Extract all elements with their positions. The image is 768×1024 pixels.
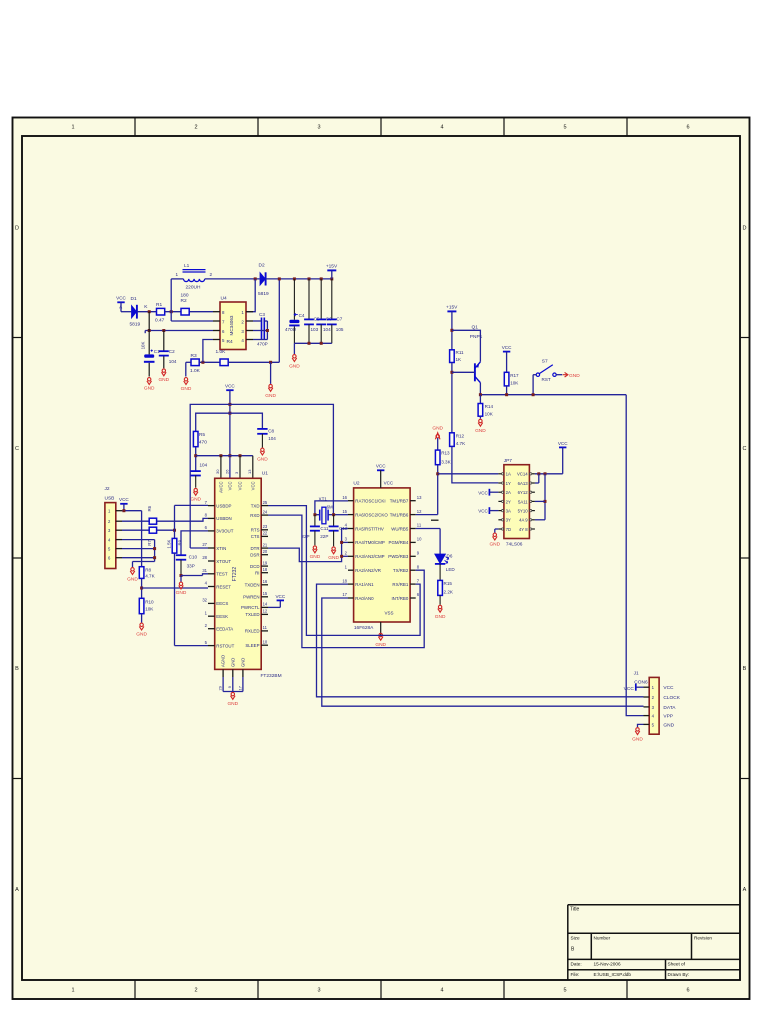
wires U4 pins 2,3,4 to C3 [253,320,262,322]
resistor R4 1.0K [220,359,228,366]
svg-text:R3: R3 [191,353,197,359]
svg-text:+15V: +15V [446,304,458,310]
svg-text:XTOUT: XTOUT [216,559,231,564]
svg-text:VCC: VCC [116,296,126,301]
svg-text:INT/RB0: INT/RB0 [391,596,408,601]
wire junction up to L1 pin1 and down to U4 pin7 [170,279,172,321]
svg-text:C7: C7 [336,316,342,321]
svg-text:GND: GND [176,590,187,596]
svg-text:22P: 22P [320,534,328,539]
svg-text:TM1/RB7: TM1/RB7 [390,499,409,504]
wire D1 to R1, node K [137,311,157,313]
wire 3V3OUT to C10 [181,531,208,555]
wire node K down to pin6 rail and C1 [148,312,150,355]
wire R7 to USBDP node [157,529,175,531]
svg-text:6Y12: 6Y12 [518,490,529,495]
IC U1 FT232BM [215,478,262,669]
svg-text:17: 17 [342,592,347,597]
capacitor 104 AVCC filter [191,471,201,475]
ground U2 VSS [378,633,383,640]
svg-text:EEDATA: EEDATA [216,627,233,632]
resistor R11 1K [450,350,455,363]
wire S7 to VPP rail [533,374,536,376]
svg-text:RA5/RST/THV: RA5/RST/THV [355,526,384,531]
svg-text:GND: GND [136,632,147,638]
ground C11 [313,546,318,553]
svg-text:103: 103 [311,327,319,332]
svg-text:VSS: VSS [384,611,393,616]
svg-text:16: 16 [263,579,268,584]
capacitor C12 22P [333,515,335,527]
svg-text:S7: S7 [542,359,548,365]
wire Q1 collector to VPP rail [479,383,481,395]
LED D6 [435,554,449,564]
svg-text:PWD/RB3: PWD/RB3 [388,554,409,559]
svg-text:Size: Size [571,936,581,941]
svg-text:C11: C11 [320,526,329,531]
svg-text:VCC: VCC [228,482,233,491]
svg-text:33P: 33P [187,563,195,568]
svg-text:10K: 10K [141,342,146,350]
wire RXD to U2 TX [268,515,424,648]
svg-text:RSTOUT: RSTOUT [216,643,234,648]
U1 right pins [261,506,268,646]
wire crystal to U2 OSC2 [334,514,348,516]
svg-text:29: 29 [218,685,223,690]
svg-text:3.3K: 3.3K [441,460,451,465]
svg-text:6M: 6M [327,504,333,509]
resistor R9 1.5K pullup [172,538,177,553]
wire B AVCC filter rail [196,413,263,431]
svg-text:4.7K: 4.7K [145,573,155,578]
resistor R14 10K [479,395,481,404]
wire L1 pin2 to D2 [205,278,260,280]
svg-text:GND: GND [190,497,201,503]
svg-text:1.5K: 1.5K [166,540,171,549]
svg-text:10K: 10K [510,380,519,385]
wire PWREN VCC port [268,606,280,608]
svg-text:+15V: +15V [326,264,338,270]
svg-text:2Y: 2Y [506,499,511,504]
svg-text:2: 2 [194,125,197,131]
wire U2 RA1 to J1 CLOCK [317,584,644,697]
svg-text:14: 14 [263,602,268,607]
ground TEST [179,582,184,589]
svg-text:USBDP: USBDP [216,503,231,508]
svg-text:EECS: EECS [216,601,228,606]
svg-text:6: 6 [686,988,689,994]
U1 left pins [208,506,215,646]
svg-text:TX/RB2: TX/RB2 [393,568,409,573]
resistor R15 2.2K [438,580,443,595]
svg-text:DTR: DTR [250,546,259,551]
svg-text:0.47: 0.47 [155,317,165,323]
svg-text:GND: GND [289,363,300,369]
wire to U4 pin1 [246,279,255,312]
svg-text:6: 6 [686,125,689,131]
svg-text:GND: GND [240,658,245,667]
power VCC input [117,301,124,303]
svg-text:C8: C8 [268,428,274,433]
diode D1 5819 [132,305,137,319]
power +15V port Q1 [447,310,456,312]
svg-text:D: D [15,226,19,232]
svg-text:VCC: VCC [376,464,386,469]
svg-text:104: 104 [323,327,331,332]
svg-text:TXDEN: TXDEN [245,583,260,588]
wire A crystal to XTIN loop [190,404,333,548]
wire U1 bottom ground bus [222,677,224,692]
svg-text:1.0K: 1.0K [216,349,227,355]
svg-text:30: 30 [215,469,220,474]
svg-text:RA6/OSC2/CKO: RA6/OSC2/CKO [355,512,388,517]
svg-text:15-Nov-2006: 15-Nov-2006 [594,962,621,967]
wire RP7 outputs bus [535,473,563,475]
svg-text:FT232: FT232 [232,567,238,582]
wire R6 to USBDN [157,518,208,521]
svg-text:11: 11 [263,625,268,630]
transistor Q1 PNP1 [475,362,481,383]
svg-text:D6: D6 [447,553,453,558]
capacitor C2 104 [163,331,165,351]
wire R9 to RSTOUT [174,553,176,646]
svg-text:10K: 10K [145,606,154,611]
svg-text:TM1/RB6: TM1/RB6 [390,512,409,517]
svg-text:3V3OUT: 3V3OUT [216,529,233,534]
svg-text:4: 4 [440,125,443,131]
svg-text:15: 15 [342,509,347,514]
svg-text:19: 19 [263,560,268,565]
svg-text:104: 104 [200,462,208,467]
wire D2 to +15V rail [266,278,332,280]
svg-text:25: 25 [263,500,268,505]
power VCC RP7 out [559,446,566,448]
svg-text:LED: LED [446,567,456,572]
svg-text:B: B [15,666,19,672]
IC U2 16F628A [354,488,411,622]
svg-text:4: 4 [440,988,443,994]
svg-text:105: 105 [336,327,344,332]
ground R10 [139,623,144,630]
svg-text:RESET: RESET [216,584,231,589]
resistor R1 0.47 [157,308,165,315]
U2 right pins [410,501,416,598]
ground AVCC filter [193,488,198,495]
wire capacitor ground rail [294,342,331,344]
svg-text:GND: GND [158,377,169,383]
svg-text:FT232BM: FT232BM [261,673,282,679]
svg-text:R6: R6 [147,505,152,511]
svg-text:24: 24 [263,509,268,514]
ground C1 [147,378,152,385]
svg-text:RTS: RTS [251,528,260,533]
ground U1 [231,692,236,699]
svg-text:12: 12 [263,609,268,614]
wire LED to R15 [439,564,441,581]
svg-text:3: 3 [317,988,320,994]
svg-text:2: 2 [210,272,213,277]
capacitor C4 470U electrolytic [293,279,295,320]
IC RP7 74LS06 [504,465,530,539]
svg-text:3A: 3A [506,509,511,514]
svg-text:15: 15 [263,591,268,596]
svg-text:17: 17 [237,685,242,690]
svg-text:10: 10 [263,639,268,644]
svg-text:GND: GND [489,542,500,548]
svg-text:D1: D1 [131,296,137,302]
wire VCC to D1 [121,311,131,313]
wire TEST to ground [180,574,183,577]
wire VPP rail [480,394,626,396]
svg-text:5: 5 [563,988,566,994]
svg-text:C: C [743,446,747,452]
svg-text:Revision: Revision [694,936,712,941]
svg-text:VCC: VCC [624,686,635,692]
svg-text:22P: 22P [301,534,309,539]
ground C2 [162,369,167,376]
svg-text:4.7K: 4.7K [456,441,466,446]
svg-text:GND: GND [569,373,580,379]
ground R15 [438,605,443,612]
wire U2 RA0 to J1 DATA [322,598,644,706]
svg-text:104: 104 [268,436,276,441]
svg-text:C3: C3 [259,312,265,317]
svg-text:GND: GND [432,425,443,431]
svg-text:CTS: CTS [251,534,260,539]
ground J2 shield [130,568,135,575]
ground R14 [478,419,483,426]
IC U4 MC34063 [220,302,246,350]
svg-text:2.2K: 2.2K [444,589,454,594]
svg-text:WU/RB5: WU/RB5 [391,526,409,531]
wire R12 to RP7 pin2 [452,446,499,483]
svg-text:RST: RST [542,377,551,382]
svg-text:RI: RI [255,571,259,576]
svg-text:C: C [15,446,19,452]
svg-text:D: D [743,226,747,232]
resistor R10 10K [139,598,144,613]
svg-text:R5: R5 [199,432,205,438]
ground R4 [268,384,273,391]
crystal XT1 6M [320,507,328,524]
svg-text:VC14: VC14 [517,472,528,477]
svg-text:13: 13 [417,495,422,500]
svg-text:5Y10: 5Y10 [518,509,529,514]
svg-text:File:: File: [571,972,580,977]
svg-text:R11: R11 [456,350,465,355]
svg-text:R13: R13 [441,451,450,456]
svg-text:PWREN: PWREN [243,595,259,600]
wire U2 OSC1 to crystal [315,501,348,515]
RP7 pins [498,474,535,529]
wire R11 to Q1 base and R12 [451,363,453,433]
resistor R2 180 [181,308,189,315]
resistor R12 4.7K [450,433,455,447]
svg-text:18: 18 [263,567,268,572]
svg-text:1A: 1A [506,472,511,477]
ground C4 rail [292,355,297,362]
svg-text:MC34063: MC34063 [229,315,234,335]
power VCC PWRCTL [277,599,284,601]
svg-text:RXD: RXD [250,513,259,518]
svg-text:VPP: VPP [663,714,673,720]
svg-text:13: 13 [247,469,252,474]
svg-text:7D: 7D [506,527,512,532]
svg-text:16: 16 [342,495,347,500]
svg-text:PNP1: PNP1 [470,334,483,340]
ground C8 [260,448,265,455]
svg-text:GND: GND [227,701,238,707]
svg-text:18: 18 [342,578,347,583]
capacitor C10 33P [176,555,186,560]
ground RP7 [493,533,498,540]
svg-text:3Y: 3Y [506,518,511,523]
svg-text:26: 26 [224,469,229,474]
capacitor C1 electrolytic [144,354,155,362]
svg-text:1K: 1K [456,357,463,362]
svg-text:A: A [15,887,19,893]
svg-text:GND: GND [265,393,276,399]
svg-text:Q1: Q1 [472,324,479,330]
svg-text:R7: R7 [147,540,152,546]
svg-text:R8: R8 [145,567,151,572]
svg-text:R14: R14 [485,404,494,409]
stub mark near U2 [431,519,439,521]
capacitor C6 104 [320,279,322,319]
svg-text:5A11: 5A11 [518,499,528,504]
svg-text:470: 470 [199,439,207,445]
svg-text:GND: GND [181,386,192,392]
svg-text:XTIN: XTIN [216,546,226,551]
svg-text:GND: GND [475,428,486,434]
switch S7 RST [536,365,556,377]
resistor R3 1.0K [191,359,199,366]
svg-text:GND: GND [144,386,155,392]
svg-text:USBDN: USBDN [216,516,231,521]
svg-text:470P: 470P [257,341,268,346]
svg-text:RA0/AN0: RA0/AN0 [355,596,374,601]
ground J1 [635,728,640,735]
wire J1 pin5 to ground [638,724,644,727]
wire R5 to filter cap [195,447,197,471]
svg-text:1: 1 [71,988,74,994]
svg-text:R10: R10 [145,599,154,604]
svg-text:2A: 2A [506,490,511,495]
svg-text:VCC: VCC [119,497,129,502]
wire R3-R4 feedback to U4 pin5 [199,361,220,363]
svg-text:U1: U1 [262,471,268,477]
svg-text:TXD: TXD [251,503,260,508]
svg-text:TEST: TEST [216,572,228,577]
resistor R7 [122,529,149,531]
diode D2 5819 [260,272,266,285]
svg-text:28: 28 [202,555,207,560]
svg-text:AGND: AGND [221,655,226,667]
svg-text:VCC: VCC [384,481,394,486]
power VCC J2 [120,503,127,505]
svg-text:VCC: VCC [250,482,255,491]
svg-text:27: 27 [202,542,207,547]
svg-text:1Y: 1Y [506,481,511,486]
svg-text:XT1: XT1 [319,497,328,502]
svg-text:Number: Number [594,936,611,941]
ground right arrow at S7 [556,374,562,376]
ground C12 [331,547,336,554]
svg-text:1: 1 [175,272,178,277]
svg-text:21: 21 [263,542,268,547]
wire TXD to U2 RX [268,506,420,636]
inductor L1 220UH [171,278,183,280]
resistor R6 [122,520,149,522]
svg-text:EESK: EESK [216,614,228,619]
svg-text:CLOCK: CLOCK [663,695,680,701]
svg-text:20: 20 [263,549,268,554]
svg-text:RX/RB1: RX/RB1 [392,582,408,587]
U1 bottom pins AGND GND GND [223,669,243,677]
svg-text:VCC: VCC [238,482,243,491]
connector J2 USB [105,503,116,569]
capacitor C7 105 [331,279,333,319]
U2 left pins [348,501,354,598]
svg-text:RA2/AN2/VR: RA2/AN2/VR [355,568,381,573]
power VCC R17 [503,351,510,353]
svg-text:C4: C4 [299,313,305,318]
power VCC U2 [377,469,384,471]
svg-text:R12: R12 [456,433,465,438]
svg-text:PGM/RB4: PGM/RB4 [389,540,409,545]
svg-text:4A 9: 4A 9 [519,518,528,523]
wire USBDP to U1 pin7 [174,505,176,538]
wire J2 pin1 VBUS to R8 [122,510,142,512]
wire J2 shield pins 4,5,6 to ground [122,539,155,541]
svg-text:R15: R15 [444,581,453,586]
svg-text:D2: D2 [259,263,265,269]
svg-text:USB: USB [105,495,115,501]
svg-text:GND: GND [663,722,674,728]
svg-text:AVCC: AVCC [218,482,223,493]
svg-text:RXLED: RXLED [245,629,260,634]
svg-text:6A13: 6A13 [518,481,529,486]
svg-text:GND: GND [328,555,339,561]
capacitor C11 22P [314,515,316,527]
svg-text:VCC: VCC [225,384,235,389]
svg-text:J2: J2 [105,486,110,492]
svg-text:DSR: DSR [250,553,259,558]
svg-text:31: 31 [202,568,207,573]
svg-text:220UH: 220UH [186,284,201,290]
svg-text:VCC: VCC [478,490,488,495]
svg-text:TXLED: TXLED [245,612,259,617]
wire RESET net [141,578,143,598]
svg-text:2: 2 [194,988,197,994]
svg-text:5: 5 [563,125,566,131]
svg-text:PWRCTL: PWRCTL [241,605,260,610]
svg-text:1: 1 [71,125,74,131]
svg-text:RA1/AN1: RA1/AN1 [355,582,374,587]
wire RP7 pin7 to ground [495,528,499,530]
wire C U1 top pins rail [196,455,253,457]
svg-text:J1: J1 [634,671,639,677]
svg-text:Date:: Date: [571,962,582,967]
svg-text:22: 22 [263,531,268,536]
svg-text:GND: GND [632,736,643,742]
svg-text:104: 104 [169,359,177,364]
svg-text:180: 180 [181,293,189,299]
resistor R17 10K [504,372,509,386]
svg-text:E:\USB_ICSP.ddb: E:\USB_ICSP.ddb [594,972,632,977]
svg-text:R4: R4 [227,339,233,345]
svg-text:1.0K: 1.0K [190,368,201,374]
